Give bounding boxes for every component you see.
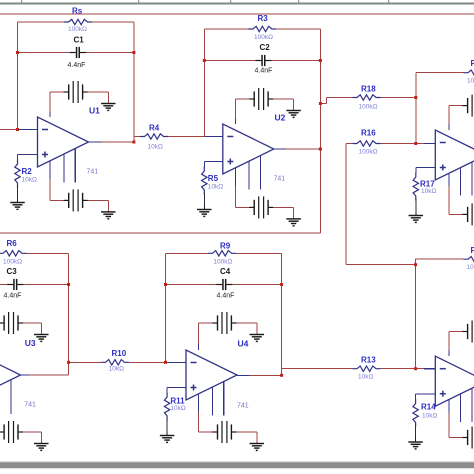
wire R18 jog bbox=[320, 98, 352, 104]
ground R11 bbox=[160, 432, 175, 443]
op-amp U5 offset pin 1 bbox=[459, 168, 461, 195]
wire U6 VEE battery lead bbox=[449, 437, 463, 439]
wire U3 to R10 bbox=[69, 361, 101, 363]
op-amp U6 offset pin 5 bbox=[471, 389, 473, 422]
label R13 bbox=[361, 355, 376, 364]
op-amp U4 pin V+ bbox=[198, 344, 200, 350]
ground V6 bbox=[34, 444, 49, 451]
junction U6 inverting node bbox=[414, 367, 417, 370]
svg-text:10kΩ: 10kΩ bbox=[148, 143, 163, 150]
junction U3 output tap bbox=[67, 361, 70, 364]
wire U2 feedback box left vertical bbox=[203, 29, 205, 137]
value R16 100k bbox=[359, 149, 378, 156]
label R10 bbox=[112, 349, 127, 358]
value R15 (clipped) bbox=[467, 77, 474, 84]
op-amp U5 741 (clipped) bbox=[435, 130, 474, 180]
label 741 U2 bbox=[274, 176, 286, 183]
resistor R16 bbox=[353, 141, 381, 146]
wire U4 to R13 bbox=[282, 368, 353, 370]
label C4 bbox=[220, 267, 231, 276]
wire U6 VCC pin bbox=[448, 332, 450, 351]
op-amp U4 741 bbox=[186, 350, 237, 400]
wire R10 to U4 bbox=[129, 361, 186, 363]
wire U1 VEE pin bbox=[49, 179, 51, 200]
svg-text:10kΩ: 10kΩ bbox=[170, 405, 185, 412]
op-amp U4 offset pin 5 bbox=[223, 382, 225, 416]
label U2 bbox=[275, 113, 286, 123]
label U4 bbox=[238, 338, 249, 348]
toolbar bottom edge line bbox=[0, 3, 474, 5]
junction R18 tap bbox=[319, 102, 322, 105]
junction C4 left bbox=[164, 283, 167, 286]
op-amp U3 741 (clipped) bbox=[0, 350, 21, 400]
value R2 10k bbox=[22, 177, 37, 184]
wire U3 feedback box top (R6 branch) bbox=[27, 252, 69, 254]
battery V6 (U3 VEE) bbox=[0, 421, 23, 443]
svg-text:Rs: Rs bbox=[72, 7, 83, 16]
wire U1 inverting input bbox=[0, 129, 38, 131]
svg-text:741: 741 bbox=[24, 402, 36, 409]
value C3 4.4nF bbox=[4, 292, 22, 299]
wire U1 feedback box right vertical bbox=[133, 22, 135, 142]
resistor R17 bbox=[413, 168, 418, 213]
svg-text:C2: C2 bbox=[260, 43, 271, 52]
label R17 bbox=[420, 180, 435, 189]
wire U4 VEE battery leads bbox=[199, 431, 257, 433]
value R9 100k bbox=[213, 258, 232, 265]
junction node B bbox=[414, 263, 417, 266]
wire U1 VEE battery leads bbox=[50, 199, 108, 201]
wire U1 feedback box left vertical bbox=[17, 22, 19, 130]
label R15 (clipped) bbox=[471, 59, 474, 68]
value Rs 100k bbox=[68, 26, 87, 33]
wire U4 feedback box left vertical bbox=[165, 253, 167, 362]
op-amp U2 offset pin 1 bbox=[248, 161, 250, 190]
wire U4 VCC battery leads bbox=[199, 322, 257, 324]
wire R16 left bbox=[346, 143, 353, 145]
wire U1 VCC ground lead bbox=[107, 92, 109, 104]
battery V2 (U1 VEE) bbox=[64, 189, 88, 211]
svg-text:741: 741 bbox=[87, 169, 99, 176]
wire U4 C4 branch bbox=[166, 284, 282, 286]
junction C2 left bbox=[203, 59, 206, 62]
wire U4 VEE pin bbox=[198, 412, 200, 432]
resistor R10 bbox=[101, 360, 129, 365]
ground V8 bbox=[250, 444, 264, 451]
wire U4 feedback box right vertical bbox=[281, 253, 283, 375]
wire R16 down vertical bbox=[345, 144, 347, 265]
wire U2 VCC pin bbox=[234, 99, 236, 119]
svg-text:R10: R10 bbox=[112, 349, 127, 358]
svg-text:R4: R4 bbox=[149, 124, 160, 133]
wire U5 VCC pin bbox=[448, 106, 450, 124]
op-amp U1 741 bbox=[38, 117, 89, 167]
battery V9 (U5 VCC, clipped) bbox=[463, 95, 474, 117]
label R4 bbox=[149, 124, 160, 133]
wire U5 VEE pin bbox=[448, 186, 450, 214]
value R12 (clipped) bbox=[467, 264, 474, 271]
svg-text:U3: U3 bbox=[25, 338, 36, 348]
op-amp U4 offset pin 1 bbox=[211, 387, 213, 416]
op-amp U1 output stub bbox=[89, 141, 102, 143]
svg-text:R5: R5 bbox=[208, 174, 219, 183]
op-amp U6 pin V- bbox=[448, 400, 450, 412]
capacitor C3 bbox=[7, 279, 23, 290]
svg-text:100kΩ: 100kΩ bbox=[213, 258, 232, 265]
value C1 4.4nF bbox=[68, 62, 86, 69]
wire U1 to R4 bbox=[134, 136, 145, 138]
svg-text:10kΩ: 10kΩ bbox=[22, 177, 37, 184]
label 741 U4 bbox=[237, 403, 249, 410]
wire U4 VCC ground lead bbox=[256, 323, 258, 335]
junction U1 output bbox=[132, 141, 135, 144]
op-amp U4 pin V- bbox=[198, 394, 200, 412]
value C2 4.4nF bbox=[255, 67, 273, 74]
wire U3 VCC battery leads bbox=[23, 322, 42, 324]
wire U3 C3 branch bbox=[0, 284, 69, 286]
svg-text:R9: R9 bbox=[220, 241, 231, 250]
op-amp U5 pin V- bbox=[448, 174, 450, 186]
value R3 100k bbox=[254, 34, 273, 41]
svg-text:4.4nF: 4.4nF bbox=[255, 67, 273, 74]
svg-text:4.4nF: 4.4nF bbox=[68, 62, 86, 69]
op-amp U6 offset pin 1 bbox=[459, 395, 461, 422]
junction U4 output bbox=[280, 374, 283, 377]
junction C4 right bbox=[280, 283, 283, 286]
svg-text:R14: R14 bbox=[421, 403, 436, 412]
value R17 10k bbox=[421, 188, 436, 195]
ground V7 bbox=[250, 335, 264, 342]
wire U2 output to bottom row bbox=[0, 232, 320, 234]
capacitor C1 bbox=[70, 47, 86, 58]
wire U3 VEE ground lead bbox=[40, 432, 42, 444]
svg-text:U2: U2 bbox=[275, 113, 286, 123]
wire U6 VCC battery lead bbox=[449, 331, 463, 333]
value R4 10k bbox=[148, 143, 163, 150]
wire R16 right bbox=[381, 143, 416, 145]
wire U1 output bbox=[101, 141, 134, 143]
ground V1 bbox=[101, 104, 116, 111]
svg-text:R3: R3 bbox=[258, 14, 269, 23]
svg-text:10kΩ: 10kΩ bbox=[208, 183, 223, 190]
battery V10 (U5 VEE, clipped) bbox=[463, 203, 474, 225]
ground V5 bbox=[34, 335, 49, 342]
label R18 bbox=[361, 85, 376, 94]
op-amp U2 offset pin 5 bbox=[260, 156, 262, 190]
capacitor C2 bbox=[255, 55, 271, 66]
battery V4 (U2 VEE) bbox=[249, 196, 273, 218]
battery V3 (U2 VCC) bbox=[249, 88, 273, 110]
svg-text:R6: R6 bbox=[7, 239, 18, 248]
junction C1 right bbox=[132, 51, 135, 54]
ground R17 bbox=[409, 212, 424, 223]
svg-text:4.4nF: 4.4nF bbox=[217, 292, 235, 299]
label C3 bbox=[7, 267, 18, 276]
wire U3 output bbox=[29, 374, 69, 376]
wire U1 C1 branch bbox=[18, 52, 134, 54]
value R10 10k bbox=[109, 366, 124, 373]
value R11 10k bbox=[170, 405, 185, 412]
resistor R6 bbox=[0, 251, 27, 256]
resistor R2 bbox=[15, 155, 20, 200]
svg-text:100kΩ: 100kΩ bbox=[467, 264, 474, 271]
ground R2 bbox=[10, 199, 25, 210]
resistor R15 (clipped) bbox=[464, 70, 474, 75]
wire U2 VEE ground lead bbox=[293, 207, 295, 219]
wire U4 feedback box top (R9 branch) bbox=[166, 252, 282, 254]
wire U4 output jog bbox=[281, 369, 283, 376]
battery V8 (U4 VEE) bbox=[212, 421, 236, 443]
op-amp U1 offset pin 1 bbox=[63, 154, 65, 183]
svg-text:C3: C3 bbox=[7, 267, 18, 276]
label R3 bbox=[258, 14, 269, 23]
wire U1 non-inverting input bbox=[18, 154, 38, 156]
node A vertical bbox=[415, 73, 417, 144]
wire node A to R15 bbox=[416, 72, 464, 74]
value R14 10k bbox=[422, 413, 437, 420]
wire U2 VCC ground lead bbox=[293, 99, 295, 111]
value C4 4.4nF bbox=[217, 292, 235, 299]
toolbar separator tick bbox=[230, 0, 231, 3]
wire U2 output bbox=[286, 148, 320, 150]
label 741 U1 bbox=[87, 169, 99, 176]
resistor R18 bbox=[353, 95, 381, 100]
op-amp U2 pin V+ bbox=[234, 119, 236, 124]
svg-text:U4: U4 bbox=[238, 338, 249, 348]
junction C1 left bbox=[16, 51, 19, 54]
battery V7 (U4 VCC) bbox=[212, 312, 236, 334]
svg-text:100kΩ: 100kΩ bbox=[3, 258, 22, 265]
battery V11 (U6 VCC, clipped) bbox=[463, 321, 474, 343]
wire U3 VEE battery leads bbox=[23, 431, 42, 433]
svg-text:R2: R2 bbox=[22, 167, 33, 176]
svg-text:R15: R15 bbox=[471, 59, 474, 68]
label U1 bbox=[89, 106, 100, 116]
value R18 100k bbox=[359, 104, 378, 111]
wire U5 non-inverting input bbox=[416, 167, 436, 169]
svg-text:100kΩ: 100kΩ bbox=[254, 34, 273, 41]
label U3 bbox=[25, 338, 36, 348]
label R6 bbox=[7, 239, 18, 248]
wire U1 output jog vertical bbox=[133, 137, 135, 143]
label R12 (clipped) bbox=[471, 246, 474, 255]
junction U2 output bbox=[319, 148, 322, 151]
op-amp U2 pin V- bbox=[234, 168, 236, 186]
label C1 bbox=[74, 35, 85, 44]
resistor R12 (clipped) bbox=[464, 257, 474, 262]
op-amp U6 741 (clipped) bbox=[435, 356, 474, 406]
op-amp U5 pin V+ bbox=[448, 124, 450, 130]
toolbar separator tick bbox=[388, 0, 389, 3]
op-amp U2 output stub bbox=[274, 148, 286, 150]
wire U4 output bbox=[249, 374, 282, 376]
svg-text:R12: R12 bbox=[471, 246, 474, 255]
wire U4 VCC pin bbox=[198, 323, 200, 344]
value R6 100k bbox=[3, 258, 22, 265]
resistor R11 bbox=[164, 388, 169, 433]
resistor R3 bbox=[248, 26, 276, 31]
battery V12 (U6 VEE, clipped) bbox=[463, 427, 474, 449]
wire U1 feedback box top (Rs branch) bbox=[18, 21, 134, 23]
svg-text:10kΩ: 10kΩ bbox=[358, 373, 373, 380]
junction U4 inverting node bbox=[164, 361, 167, 364]
wire U1 VEE ground lead bbox=[107, 200, 109, 212]
wire R4 to U2 bbox=[164, 136, 223, 138]
wire U2 feedback box right vertical bbox=[319, 29, 321, 233]
label R11 bbox=[170, 396, 185, 405]
wire U2 VCC battery leads bbox=[235, 98, 293, 100]
op-amp U1 pin V+ bbox=[49, 112, 51, 117]
svg-text:R16: R16 bbox=[361, 129, 376, 138]
resistor R4 bbox=[140, 134, 168, 139]
wire U4 non-inverting input bbox=[167, 387, 186, 389]
label R2 bbox=[22, 167, 33, 176]
ground V2 bbox=[101, 212, 116, 219]
wire U3 feedback box right vertical bbox=[68, 253, 70, 375]
toolbar separator tick bbox=[298, 0, 299, 3]
node B vertical bbox=[415, 265, 417, 369]
wire U2 C2 branch bbox=[204, 60, 320, 62]
junction C2 right bbox=[319, 59, 322, 62]
ground V3 bbox=[286, 111, 301, 118]
ground R14 bbox=[408, 438, 423, 449]
resistor Rs bbox=[64, 19, 92, 24]
svg-text:100kΩ: 100kΩ bbox=[68, 26, 87, 33]
svg-text:C4: C4 bbox=[220, 267, 231, 276]
wire U1 VCC pin bbox=[49, 92, 51, 112]
wire U4 VEE ground lead bbox=[256, 432, 258, 444]
label R9 bbox=[220, 241, 231, 250]
toolbar separator tick bbox=[21, 0, 22, 3]
svg-text:741: 741 bbox=[237, 403, 249, 410]
resistor R9 bbox=[208, 251, 236, 256]
resistor R5 bbox=[202, 162, 207, 207]
toolbar separator tick bbox=[138, 0, 139, 3]
wire U2 feedback box top (R3 branch) bbox=[204, 28, 320, 30]
svg-text:R13: R13 bbox=[361, 355, 376, 364]
svg-text:100kΩ: 100kΩ bbox=[359, 104, 378, 111]
wire U6 VEE pin bbox=[448, 413, 450, 438]
junction U5 inverting node bbox=[414, 142, 417, 145]
wire U1 VCC battery leads bbox=[50, 91, 108, 93]
junction C3 right bbox=[67, 283, 70, 286]
junction node A R18 bbox=[414, 96, 417, 99]
svg-text:R18: R18 bbox=[361, 85, 376, 94]
op-amp U5 offset pin 5 bbox=[471, 163, 473, 196]
op-amp U1 offset pin 5 bbox=[74, 149, 76, 183]
wire U2 non-inverting input bbox=[204, 161, 223, 163]
resistor R13 bbox=[353, 366, 381, 371]
wire node B jog to R12 bbox=[416, 259, 464, 265]
value R13 10k bbox=[358, 373, 373, 380]
label R5 bbox=[208, 174, 219, 183]
op-amp U4 output stub bbox=[237, 374, 249, 376]
junction U1 inverting node bbox=[16, 128, 19, 131]
wire R18 to node A bbox=[381, 97, 416, 99]
svg-text:100kΩ: 100kΩ bbox=[467, 77, 474, 84]
wire U5 VEE battery lead bbox=[449, 213, 463, 215]
wire U5 inverting input bbox=[416, 143, 436, 145]
status bar band bbox=[0, 462, 474, 470]
resistor R14 bbox=[413, 394, 418, 439]
svg-text:U1: U1 bbox=[89, 106, 100, 116]
capacitor C4 bbox=[216, 279, 232, 290]
wire U5 VCC battery lead bbox=[449, 105, 463, 107]
op-amp U6 pin V+ bbox=[448, 351, 450, 357]
svg-text:10kΩ: 10kΩ bbox=[421, 188, 436, 195]
op-amp U1 pin V- bbox=[49, 161, 51, 179]
svg-text:4.4nF: 4.4nF bbox=[4, 292, 22, 299]
svg-text:100kΩ: 100kΩ bbox=[359, 149, 378, 156]
wire U3 VCC ground lead bbox=[40, 323, 42, 335]
op-amp U3 output stub bbox=[21, 374, 29, 376]
op-amp U3 offset pin bbox=[10, 380, 12, 414]
svg-text:C1: C1 bbox=[74, 35, 85, 44]
wire U2 VEE pin bbox=[234, 186, 236, 207]
svg-text:741: 741 bbox=[274, 176, 286, 183]
wire R13 to U6 bbox=[381, 368, 436, 370]
label Rs bbox=[72, 7, 83, 16]
label R14 bbox=[421, 403, 436, 412]
ground R5 bbox=[197, 206, 212, 217]
label R16 bbox=[361, 129, 376, 138]
wire top feedback bus bbox=[0, 13, 474, 15]
svg-text:10kΩ: 10kΩ bbox=[422, 413, 437, 420]
wire U2 VEE battery leads bbox=[235, 206, 293, 208]
wire U6 non-inverting input bbox=[416, 393, 436, 395]
value R5 10k bbox=[208, 183, 223, 190]
label C2 bbox=[260, 43, 271, 52]
battery V1 (U1 VCC) bbox=[64, 81, 88, 103]
op-amp U2 741 bbox=[223, 124, 274, 174]
wire R16 bottom horizontal bbox=[346, 264, 416, 266]
label 741 U3 bbox=[24, 402, 36, 409]
ground V4 bbox=[286, 219, 301, 226]
svg-text:10kΩ: 10kΩ bbox=[109, 366, 124, 373]
battery V5 (U3 VCC) bbox=[0, 312, 23, 334]
